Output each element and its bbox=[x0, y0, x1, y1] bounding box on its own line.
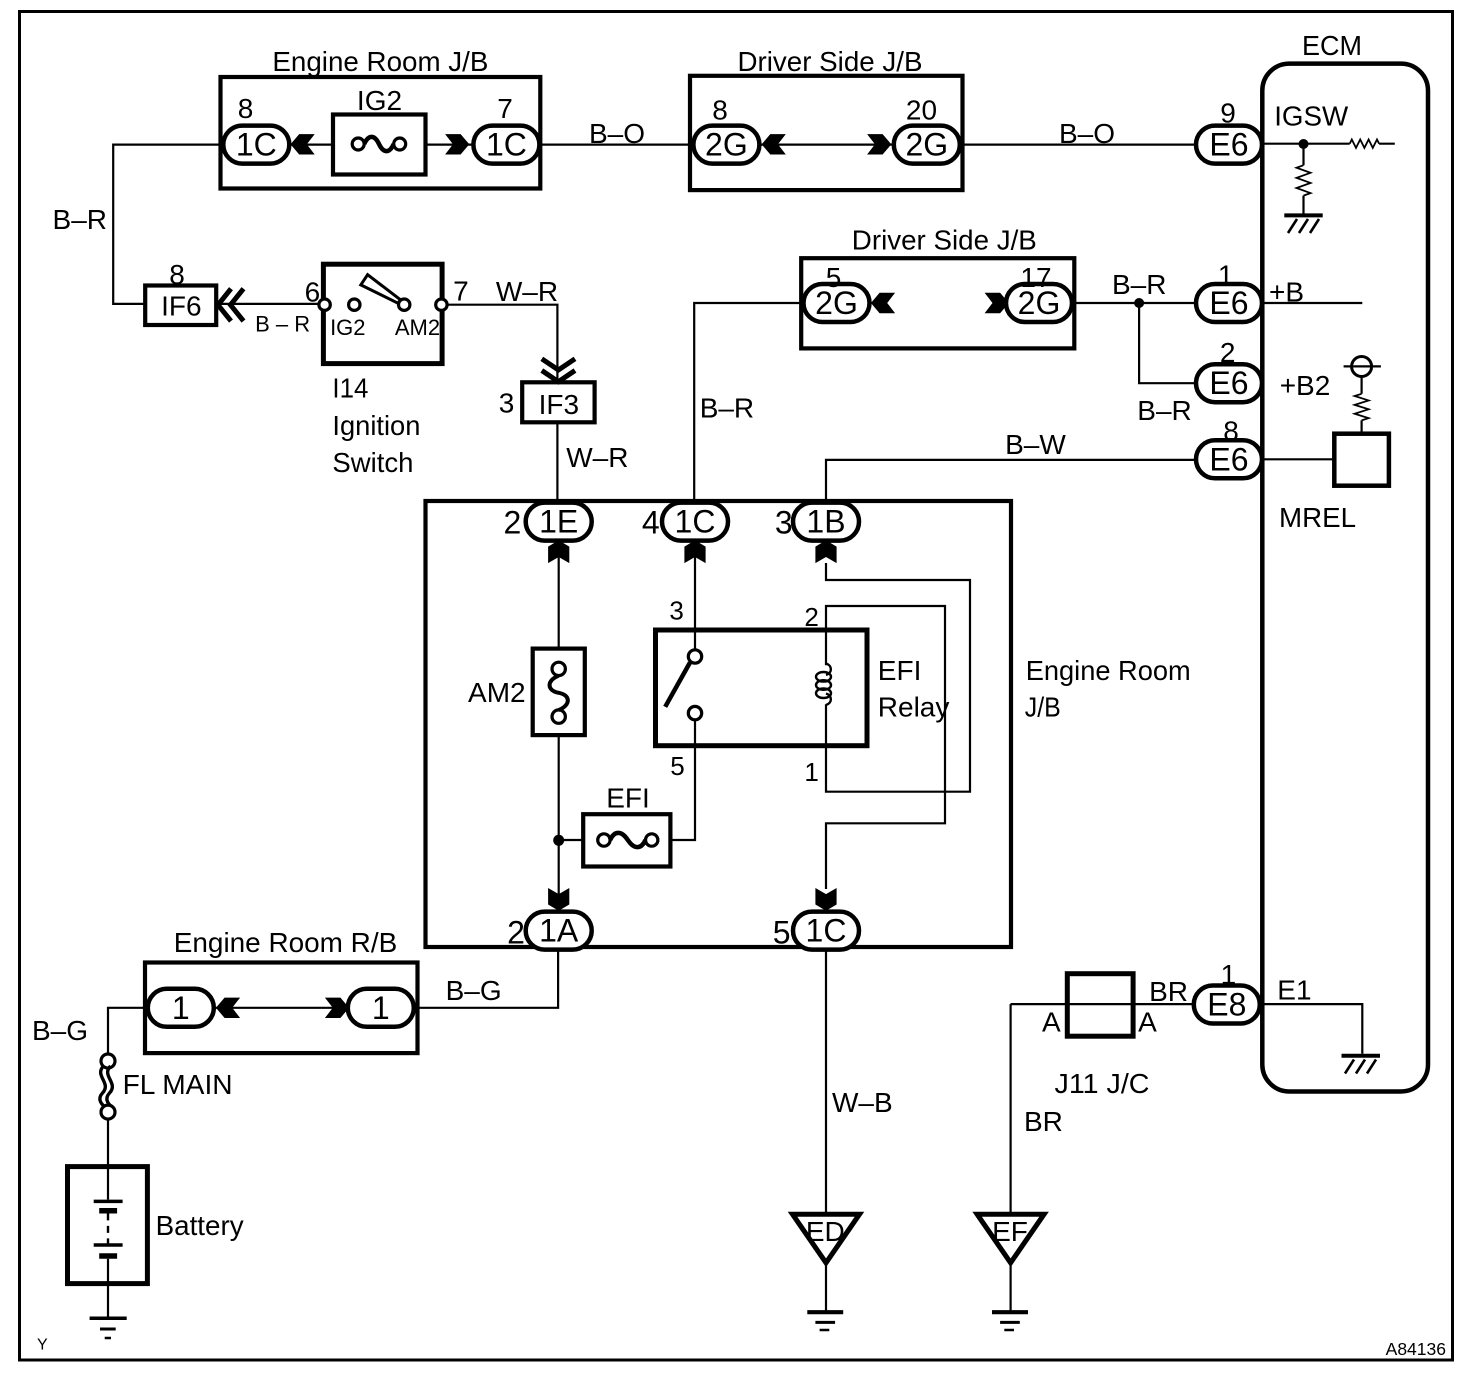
svg-text:3: 3 bbox=[499, 388, 515, 419]
connector oval 2G pin 5 bbox=[804, 284, 870, 322]
svg-text:Driver Side J/B: Driver Side J/B bbox=[738, 46, 923, 77]
wire IG2 fuse row inside Engine Room J/B bbox=[289, 144, 691, 146]
svg-text:AM2: AM2 bbox=[468, 677, 526, 708]
svg-text:Switch: Switch bbox=[332, 447, 413, 478]
svg-text:J/B: J/B bbox=[1025, 692, 1061, 723]
SECTION: ignition switch row bbox=[145, 259, 628, 503]
MREL supply circle bbox=[1352, 357, 1372, 377]
svg-text:E6: E6 bbox=[1209, 365, 1248, 401]
connector oval E6 pin 8 bbox=[1196, 440, 1262, 478]
svg-text:EFI: EFI bbox=[606, 783, 650, 814]
fusible link FL MAIN bbox=[100, 1066, 107, 1108]
svg-text:B–W: B–W bbox=[1005, 429, 1066, 460]
wire IF6 to ignition switch bbox=[216, 303, 319, 305]
arrow right at 1 bbox=[325, 998, 349, 1018]
wire B-G from R/B to FL MAIN bbox=[108, 1008, 148, 1054]
connector oval 1B pin 3 bbox=[793, 503, 859, 541]
svg-text:7: 7 bbox=[453, 275, 469, 306]
wire B-W from 1B up to E6 8 bbox=[826, 460, 1198, 503]
IGSW pull-down wire bbox=[1302, 144, 1304, 214]
arrow left at 2G5 bbox=[871, 293, 895, 313]
svg-text:1: 1 bbox=[372, 990, 390, 1026]
svg-text:A: A bbox=[1042, 1007, 1061, 1038]
svg-text:B–R: B–R bbox=[53, 204, 107, 235]
fuse IG2 box bbox=[333, 115, 426, 175]
svg-text:3: 3 bbox=[775, 505, 793, 541]
arrow left at 1 bbox=[216, 998, 240, 1018]
relay contact bottom bbox=[688, 706, 701, 719]
svg-text:B–G: B–G bbox=[446, 975, 502, 1006]
ground triangle ED bbox=[793, 1214, 860, 1263]
wire ED to ground bbox=[825, 1263, 827, 1311]
svg-text:Relay: Relay bbox=[878, 692, 950, 723]
svg-text:Engine Room J/B: Engine Room J/B bbox=[272, 46, 488, 77]
svg-text:+B: +B bbox=[1269, 277, 1304, 308]
Engine Room J/B center box bbox=[426, 501, 1012, 947]
terminal 6 bbox=[319, 299, 330, 310]
svg-text:5: 5 bbox=[773, 915, 791, 951]
svg-text:IGSW: IGSW bbox=[1274, 101, 1349, 132]
svg-text:W–R: W–R bbox=[566, 442, 628, 473]
connector oval 1C pin 4 bbox=[662, 503, 728, 541]
relay blade bbox=[665, 663, 690, 707]
svg-text:E8: E8 bbox=[1207, 987, 1246, 1023]
fuse EFI element bbox=[598, 834, 610, 846]
svg-text:4: 4 bbox=[642, 505, 660, 541]
Driver Side J/B box bbox=[690, 76, 963, 190]
arrow right at 2G20 bbox=[867, 134, 891, 154]
ground battery bbox=[90, 1316, 127, 1320]
svg-text:I14: I14 bbox=[332, 373, 368, 404]
fuse EFI box bbox=[583, 814, 670, 866]
FL MAIN top circle bbox=[101, 1054, 115, 1068]
connector oval E6 pin 9 bbox=[1196, 126, 1262, 164]
SECTION: center engine room JB bbox=[426, 225, 1199, 951]
SECTION: bottom right grounds bbox=[793, 949, 1447, 1359]
connector oval 2G pin 8 bbox=[693, 126, 759, 164]
svg-text:IG2: IG2 bbox=[330, 315, 365, 340]
connector oval 2G pin 20 bbox=[894, 126, 960, 164]
connector oval 1C pin 8 bbox=[223, 126, 289, 164]
wire J11 row bbox=[1011, 1003, 1194, 1005]
svg-text:IF6: IF6 bbox=[161, 291, 201, 322]
svg-text:2: 2 bbox=[804, 602, 818, 632]
fuse box IF6 bbox=[145, 286, 216, 326]
connector oval 1A pin 2 bbox=[526, 912, 592, 950]
svg-text:5: 5 bbox=[670, 751, 684, 781]
battery box bbox=[68, 1167, 148, 1284]
svg-text:BR: BR bbox=[1149, 976, 1188, 1007]
wire AM2 fuse to 1A bbox=[558, 735, 560, 913]
svg-text:17: 17 bbox=[1020, 262, 1051, 293]
svg-text:ECM: ECM bbox=[1302, 30, 1362, 61]
contact IG2 bbox=[349, 299, 360, 310]
svg-text:MREL: MREL bbox=[1279, 502, 1356, 533]
svg-text:A84136: A84136 bbox=[1386, 1339, 1446, 1359]
arrow up 1E bbox=[548, 540, 569, 563]
wire relay pin 2 to 1C5 bbox=[826, 606, 945, 889]
svg-text:1E: 1E bbox=[539, 504, 578, 540]
chassis ground E1 bbox=[1342, 1054, 1381, 1058]
connector oval 1C pin 5 bbox=[793, 912, 859, 950]
ground EF bbox=[992, 1310, 1028, 1314]
arrow left at 1C8 bbox=[291, 134, 315, 154]
svg-text:2G: 2G bbox=[705, 127, 748, 163]
battery cell symbol bbox=[107, 1167, 109, 1200]
arrow down 1A bbox=[548, 888, 569, 911]
resistor IGSW vertical bbox=[1297, 165, 1311, 195]
arrow down 1C5 bbox=[815, 888, 836, 911]
svg-text:W–B: W–B bbox=[832, 1087, 893, 1118]
fuse AM2 box bbox=[533, 649, 585, 736]
svg-text:Y: Y bbox=[37, 1337, 48, 1354]
relay contact top bbox=[688, 650, 701, 663]
connector oval 2G pin 17 bbox=[1006, 284, 1072, 322]
svg-text:1B: 1B bbox=[806, 504, 845, 540]
SECTION: top row bbox=[53, 46, 1262, 304]
resistor MREL vertical bbox=[1360, 377, 1362, 434]
svg-text:IG2: IG2 bbox=[357, 85, 402, 116]
svg-text:EFI: EFI bbox=[878, 655, 922, 686]
wire EFI fuse to junction bbox=[559, 720, 695, 840]
svg-text:2: 2 bbox=[504, 505, 522, 541]
wire B-R from 2G5 down to 1C4 bbox=[694, 303, 804, 503]
E1 internal wire bbox=[1260, 1004, 1363, 1054]
svg-text:1C: 1C bbox=[236, 127, 277, 163]
connector oval E8 pin 1 bbox=[1194, 986, 1260, 1024]
svg-text:Battery: Battery bbox=[156, 1210, 244, 1241]
svg-text:E1: E1 bbox=[1277, 975, 1311, 1006]
connector oval E6 pin 1 bbox=[1196, 284, 1262, 322]
ignition switch I14 box bbox=[323, 264, 442, 363]
svg-text:1: 1 bbox=[1221, 959, 1237, 990]
contact AM2 bbox=[399, 299, 410, 310]
terminal 7 bbox=[436, 299, 447, 310]
+B internal wire bbox=[1262, 302, 1362, 304]
connector oval 1 left bbox=[148, 989, 214, 1027]
svg-text:9: 9 bbox=[1220, 98, 1236, 129]
svg-text:8: 8 bbox=[169, 259, 185, 290]
Engine Room J/B box bbox=[221, 77, 541, 189]
wire junction to E6 2 bbox=[1139, 303, 1198, 383]
node B-R junction bbox=[1134, 298, 1144, 308]
Engine Room R/B box bbox=[145, 963, 418, 1054]
svg-text:B–O: B–O bbox=[589, 118, 645, 149]
svg-text:EF: EF bbox=[992, 1216, 1028, 1247]
svg-text:E6: E6 bbox=[1209, 441, 1248, 477]
svg-text:B–R: B–R bbox=[1112, 269, 1166, 300]
svg-text:BR: BR bbox=[1024, 1106, 1063, 1137]
svg-text:Engine Room: Engine Room bbox=[1026, 655, 1191, 686]
wire between ovals bbox=[214, 1007, 348, 1009]
double chevron down bbox=[542, 359, 575, 382]
fuse IG2 element bbox=[352, 138, 364, 150]
wire W-R IF3 to 1E bbox=[556, 422, 558, 503]
svg-text:2: 2 bbox=[507, 915, 525, 951]
double chevron left bbox=[218, 289, 244, 321]
connector oval 1E pin 2 bbox=[526, 503, 592, 541]
SECTION: ECM right column bbox=[1194, 30, 1428, 1092]
arrow left at 2G8 bbox=[762, 134, 786, 154]
wire B-G from R/B to 1A bbox=[414, 949, 558, 1008]
svg-text:1A: 1A bbox=[539, 913, 579, 949]
svg-text:20: 20 bbox=[906, 95, 937, 126]
svg-text:W–R: W–R bbox=[496, 276, 558, 307]
svg-text:FL MAIN: FL MAIN bbox=[123, 1069, 233, 1100]
svg-text:Ignition: Ignition bbox=[332, 410, 420, 441]
svg-text:J11 J/C: J11 J/C bbox=[1055, 1068, 1150, 1099]
connector oval 1 right bbox=[348, 989, 414, 1027]
svg-text:1C: 1C bbox=[486, 127, 527, 163]
svg-text:B–R: B–R bbox=[1137, 395, 1191, 426]
wire 2G17 to E6 1 bbox=[1072, 302, 1198, 304]
wire battery to ground bbox=[107, 1284, 109, 1317]
ground triangle EF bbox=[977, 1214, 1044, 1263]
svg-text:3: 3 bbox=[669, 595, 683, 625]
wire relay pin 1 to 1B bbox=[826, 563, 970, 792]
wire BR from J11 to EF bbox=[1009, 1004, 1011, 1212]
fuse AM2 element bbox=[552, 662, 565, 675]
svg-text:1C: 1C bbox=[806, 913, 847, 949]
connector oval 1C pin 7 bbox=[473, 126, 539, 164]
svg-text:8: 8 bbox=[712, 95, 728, 126]
wire 1E to AM2 fuse bbox=[558, 541, 560, 649]
svg-text:B–G: B–G bbox=[32, 1015, 88, 1046]
svg-text:B – R: B – R bbox=[255, 312, 310, 337]
wire W-B from 1C5 to ED bbox=[825, 949, 827, 1212]
svg-text:2: 2 bbox=[1220, 337, 1236, 368]
wire W-R switch 7 to IF3 bbox=[447, 305, 557, 383]
MREL wire bbox=[1262, 458, 1334, 460]
ground ED bbox=[807, 1310, 843, 1314]
svg-text:B–O: B–O bbox=[1059, 118, 1115, 149]
connector oval E6 pin 2 bbox=[1196, 364, 1262, 402]
arrow up 1C bbox=[684, 540, 705, 563]
svg-text:Engine Room R/B: Engine Room R/B bbox=[174, 927, 397, 958]
MREL coil box bbox=[1334, 434, 1389, 486]
Driver Side J/B 2 box bbox=[801, 258, 1074, 348]
fuse box IF3 bbox=[522, 382, 594, 422]
svg-text:E6: E6 bbox=[1209, 127, 1248, 163]
svg-text:8: 8 bbox=[238, 93, 254, 124]
arrow right at 1C7 bbox=[445, 134, 469, 154]
FL MAIN bottom circle bbox=[101, 1105, 115, 1119]
svg-text:1: 1 bbox=[1218, 260, 1234, 291]
svg-text:2G: 2G bbox=[905, 127, 948, 163]
svg-text:Driver Side J/B: Driver Side J/B bbox=[852, 225, 1037, 256]
IGSW internal wire bbox=[1262, 143, 1395, 145]
svg-text:AM2: AM2 bbox=[395, 315, 440, 340]
SECTION: bottom left battery bbox=[32, 927, 558, 1354]
wire B-O from Driver Side J/B to E6 bbox=[759, 144, 1198, 146]
svg-text:IF3: IF3 bbox=[539, 389, 579, 420]
resistor IGSW horizontal bbox=[1350, 140, 1379, 148]
wire B-R from pin 8 1C left to IF6 bbox=[113, 145, 224, 304]
wire FL MAIN to battery bbox=[107, 1119, 109, 1167]
arrow right at 2G17 bbox=[985, 293, 1009, 313]
svg-text:5: 5 bbox=[826, 262, 842, 293]
chassis ground IGSW bbox=[1284, 213, 1322, 217]
wire EF to ground bbox=[1009, 1263, 1011, 1311]
node IGSW junction bbox=[1299, 139, 1309, 149]
svg-text:A: A bbox=[1138, 1007, 1157, 1038]
svg-text:1C: 1C bbox=[675, 504, 716, 540]
junction connector J11 J/C bbox=[1067, 974, 1133, 1036]
relay coil bbox=[826, 664, 831, 676]
switch lever bbox=[361, 275, 401, 304]
wire 1C4 to relay pin 3 bbox=[694, 541, 696, 650]
svg-text:6: 6 bbox=[305, 277, 321, 308]
ECM box bbox=[1262, 64, 1428, 1092]
arrow up 1B bbox=[815, 540, 836, 563]
node AM2/EFI junction bbox=[553, 835, 564, 846]
svg-text:1: 1 bbox=[804, 757, 818, 787]
relay box EFI bbox=[656, 630, 868, 746]
svg-text:1: 1 bbox=[172, 990, 190, 1026]
svg-text:+B2: +B2 bbox=[1280, 370, 1331, 401]
svg-text:ED: ED bbox=[806, 1216, 845, 1247]
svg-text:7: 7 bbox=[497, 93, 513, 124]
svg-text:8: 8 bbox=[1223, 416, 1239, 447]
svg-text:B–R: B–R bbox=[700, 393, 754, 424]
